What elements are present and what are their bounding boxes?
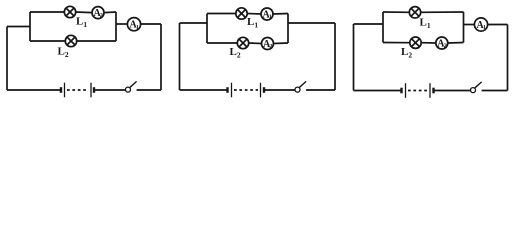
ammeter A1 (circuit 2, top branch)	[261, 8, 273, 21]
wire c1 right rail	[160, 24, 162, 90]
wire c2 top branch left	[207, 13, 236, 15]
lamp L2 (circuit 2): circle-with-cross symbol	[237, 37, 248, 48]
wire c1 ammeter to right rail	[141, 23, 161, 25]
wire c2 feed from left rail to parallel block	[180, 22, 208, 24]
wire c1 top branch middle	[76, 11, 92, 14]
wire c3 parallel block right vertical	[463, 12, 465, 43]
wire c3 bottom branch left	[383, 42, 410, 44]
wire c3 bottom right segment	[482, 90, 508, 92]
svg-text:L2: L2	[401, 46, 412, 60]
wire c3 top branch right	[421, 11, 464, 13]
wire c2 parallel block left vertical	[206, 14, 208, 44]
wire c2 bottom middle segment	[264, 89, 295, 91]
wire c2 bottom branch middle	[249, 42, 262, 45]
wire c3 ammeter to right rail	[488, 24, 508, 26]
wire c1 exit wire to ammeter	[116, 23, 127, 25]
wire c2 top branch middle	[247, 13, 261, 16]
svg-text:1: 1	[269, 15, 272, 21]
schematic: three parallel-lamp circuits with ammeters	[0, 0, 517, 109]
svg-text:L1: L1	[420, 17, 431, 31]
wire c1 parallel block left vertical	[29, 12, 31, 41]
wire c1 bottom left segment	[7, 89, 61, 91]
wire c3 right rail	[507, 25, 509, 91]
wire c3 bottom branch right	[448, 42, 464, 45]
wire c1 parallel block right vertical	[115, 12, 117, 41]
wire c3 bottom middle segment	[434, 90, 471, 92]
wire c2 top branch right	[273, 13, 288, 16]
svg-text:1: 1	[483, 25, 486, 31]
wire c1 bottom branch left	[30, 40, 65, 42]
wire c3 top branch left	[383, 11, 409, 13]
wire c2 parallel block right vertical	[287, 14, 289, 44]
lamp L1 (circuit 2): circle-with-cross symbol	[236, 8, 247, 19]
ammeter A2 (circuit 1, top branch)	[92, 7, 104, 20]
wire c1 left rail	[6, 27, 8, 91]
ammeter A1 (circuit 3, main line)	[474, 18, 487, 31]
lamp L1 (circuit 3): circle-with-cross symbol	[409, 7, 420, 18]
svg-text:L1: L1	[76, 16, 87, 30]
wire c1 bottom right segment	[137, 89, 161, 91]
svg-text:2: 2	[269, 44, 272, 50]
wire c1 top branch right	[104, 11, 116, 14]
battery c2: multi-cell with dashed middle	[228, 83, 265, 98]
ammeter A1 (circuit 1, main line)	[127, 18, 140, 31]
wire c3 left rail	[353, 24, 355, 91]
wire c1 bottom branch right	[77, 40, 116, 42]
switch c2: open knife switch	[295, 81, 306, 92]
wire c2 bottom branch left	[207, 42, 237, 44]
ammeter A2 (circuit 2, bottom branch)	[262, 38, 274, 51]
ammeter A2 (circuit 3, bottom branch)	[436, 37, 448, 50]
wire c3 parallel block left vertical	[382, 12, 384, 43]
svg-text:2: 2	[100, 13, 103, 19]
switch c1: open knife switch	[126, 81, 137, 92]
battery c3: multi-cell with dashed middle	[402, 83, 434, 98]
wire c3 feed from left rail to parallel block	[354, 23, 384, 25]
lamp L2 (circuit 1): circle-with-cross symbol	[65, 35, 76, 46]
svg-text:L2: L2	[58, 46, 69, 60]
wire c1 feed from left rail to parallel block	[7, 26, 30, 28]
svg-text:1: 1	[136, 25, 139, 31]
wire c2 right rail	[334, 23, 336, 90]
wire c3 exit wire to ammeter	[464, 24, 475, 26]
wire c1 top branch left	[30, 11, 64, 13]
wire c1 bottom middle segment	[94, 89, 126, 91]
svg-text:L1: L1	[247, 16, 258, 30]
wire c2 bottom left segment	[180, 89, 228, 91]
svg-text:2: 2	[444, 44, 447, 50]
lamp L1 (circuit 1): circle-with-cross symbol	[64, 6, 75, 17]
wire c2 left rail	[179, 23, 181, 90]
wire c3 bottom left segment	[354, 90, 402, 92]
battery c1: multi-cell with dashed middle	[61, 83, 94, 98]
switch c3: open knife switch	[471, 82, 482, 93]
wire c2 exit wire to right rail	[288, 22, 335, 24]
wire c3 bottom branch middle	[421, 42, 436, 44]
wire c2 bottom right segment	[306, 89, 335, 91]
lamp L2 (circuit 3): circle-with-cross symbol	[410, 37, 421, 48]
wire c2 bottom branch right	[274, 42, 289, 45]
